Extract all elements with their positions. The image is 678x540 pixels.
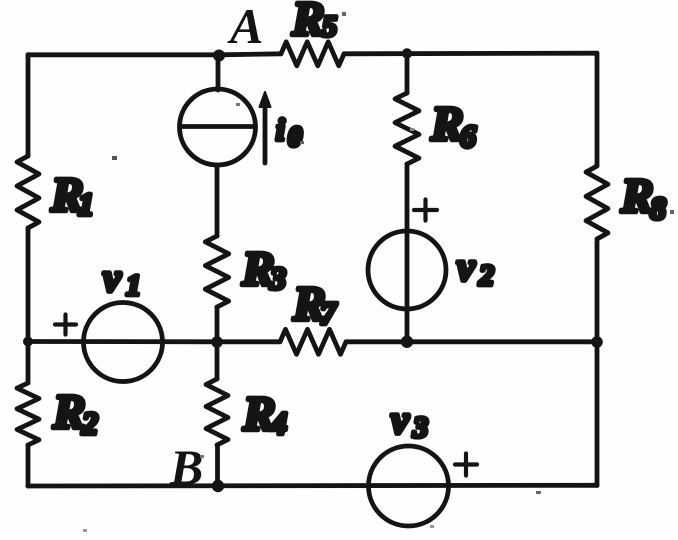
resistor R1 [17, 156, 94, 228]
polarity + for v2 [414, 200, 437, 221]
svg-text:R: R [291, 0, 325, 46]
svg-text:2: 2 [478, 259, 494, 292]
wire: middle rail center junction to R7 [218, 339, 280, 344]
svg-text:7: 7 [320, 295, 338, 331]
svg-text:0: 0 [288, 122, 302, 153]
svg-text:v: v [103, 255, 122, 300]
resistor R2 [17, 383, 98, 445]
svg-text:R: R [52, 384, 86, 439]
wire: top rail left segment (top-left corner to node A) [28, 55, 219, 57]
junction dot middle rail right edge [591, 336, 603, 348]
polarity + for v3 [455, 454, 477, 476]
wire: right edge R8 down to middle-right junction [595, 239, 600, 342]
wire: top rail node A to R5 [219, 54, 281, 55]
svg-text:6: 6 [460, 118, 476, 154]
wire: middle rail v2 junction to right edge [407, 339, 597, 344]
svg-text:4: 4 [270, 405, 287, 441]
label v2 [457, 244, 494, 292]
wire: R3 down to center junction on middle rail [215, 307, 220, 342]
wire: top-right corner down right edge to R8 [595, 53, 600, 166]
wire: middle rail left segment (left junction through v1 to center junction) [28, 339, 218, 344]
wire: top rail junction down to R6 [405, 53, 410, 93]
wire: left edge R1 to middle-left junction [26, 228, 31, 341]
svg-text:1: 1 [126, 269, 141, 302]
wire: R6 down through source v2 to middle rail junction [405, 164, 410, 342]
resistor R7 [280, 276, 346, 354]
wire: top rail R5 to right node and top-right corner [344, 51, 597, 56]
resistor R4 [206, 379, 287, 445]
voltage source v3 (circle on bottom rail) [369, 446, 449, 526]
resistor R5 [281, 0, 344, 66]
wire: left edge middle junction to R2 [26, 341, 31, 383]
svg-text:3: 3 [269, 260, 286, 296]
node B junction dot [212, 480, 224, 492]
voltage source v2 (circle, vertical wire chord) [368, 231, 446, 309]
junction dot middle rail / v2 branch [401, 336, 413, 348]
node A junction dot [213, 50, 225, 62]
junction dot middle rail center (R3/R4) [211, 336, 223, 348]
label v3 [391, 397, 428, 444]
wire: R4 down to node B on bottom rail [215, 445, 220, 486]
svg-text:v: v [457, 244, 476, 289]
svg-text:8: 8 [650, 190, 666, 226]
label v1 [103, 255, 141, 302]
wire: left edge R2 down to bottom-left corner [26, 445, 31, 486]
svg-text:i: i [276, 112, 285, 147]
svg-text:5: 5 [322, 10, 337, 43]
voltage source v1 (circle on middle rail) [84, 303, 163, 382]
wire: left edge top-left corner down to R1 [26, 55, 31, 156]
resistor R3 [205, 236, 286, 307]
junction dot top rail / R6 branch [402, 48, 412, 58]
wire: current source to R3 [215, 165, 220, 236]
svg-text:R: R [430, 96, 464, 151]
wire: right edge middle junction down to bottom-right corner [595, 342, 600, 486]
current source i0 (circle with bar and arrow) [180, 89, 256, 165]
wire: node A down to current source i0 [216, 55, 221, 90]
wire: middle rail R7 to v2 junction [346, 339, 407, 344]
junction dot middle rail left edge [23, 337, 33, 347]
svg-text:2: 2 [81, 405, 98, 441]
label i0 [276, 112, 302, 153]
polarity + for v1 [55, 315, 76, 335]
svg-text:v: v [391, 397, 410, 442]
svg-text:R: R [620, 168, 654, 223]
arrow for i0 current direction (up) [260, 92, 271, 163]
svg-text:B: B [169, 439, 203, 495]
svg-text:3: 3 [412, 411, 428, 444]
svg-text:1: 1 [78, 186, 94, 222]
resistor R6 [395, 93, 476, 164]
wire: center junction down to R4 [215, 342, 220, 379]
resistor R8 [586, 166, 666, 239]
wire: bottom rail (passes through source v3) [28, 483, 597, 489]
svg-text:A: A [227, 0, 263, 54]
